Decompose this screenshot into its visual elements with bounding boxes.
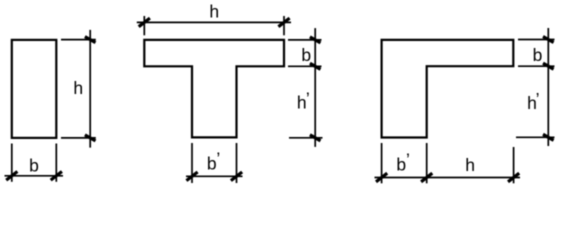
dim b (T right): top extension line [288,39,322,41]
dim b (rect): right tick [51,172,62,181]
dim b (T right): middle tick [310,63,321,69]
dim h (rect): dimension line [89,30,91,148]
dim b (rect): right extension line [55,144,57,182]
dim b (L right): middle tick [543,63,554,69]
dim b (rect): left tick [6,172,17,181]
dim b and h' (T right): dimension line [314,28,316,147]
dim b' and h (L bottom): dimension line [375,177,521,179]
dim h (T top): left extension line [143,16,145,35]
L section outline [382,40,514,138]
svg-text:b: b [29,155,39,175]
dim h (T top): right extension line [283,16,285,35]
dim b' (L bottom): left tick [376,173,387,182]
dim h' (T right): bottom extension line [289,137,323,139]
svg-text:’: ’ [306,88,310,108]
svg-text:h: h [465,155,475,175]
dim b (L right): top extension line [518,39,555,41]
rectangular section outline [12,40,57,138]
dim h (T top): left tick [139,18,150,27]
svg-text:’: ’ [216,149,220,169]
dim b' (T bottom): right tick [231,172,242,181]
dim h' (L right): bottom tick [543,134,554,140]
dim b (T right): top tick [310,37,321,43]
dim h (rect): top tick [85,37,96,43]
dim h (L bottom): right extension line [513,147,515,183]
dim h (T top): dimension line [137,21,291,23]
svg-text:’: ’ [536,89,540,109]
svg-text:b: b [301,45,311,65]
svg-text:b: b [207,153,217,173]
dim h (L bottom): right tick [508,173,519,182]
dim b (rect): dimension line [5,175,64,177]
dim b (rect): left extension line [11,144,13,182]
dim b' and h (L bottom): middle extension line [426,143,428,183]
dim b' (T bottom): right extension line [236,143,238,183]
dim b' (T bottom): dimension line [186,175,243,177]
dim b' (L bottom): left extension line [381,143,383,183]
dim h (rect): top extension line [61,39,96,41]
dim h (rect): bottom tick [85,135,96,141]
dim b (T right): middle extension line [288,65,322,67]
dim b (L right): middle extension line [518,65,555,67]
T section outline [144,40,284,137]
svg-text:b: b [396,154,406,174]
svg-text:h: h [73,78,83,98]
svg-text:’: ’ [406,149,410,169]
dim h (rect): bottom extension line [61,137,96,139]
dim h' (L right): bottom extension line [516,136,555,138]
dim b' (T bottom): left tick [186,172,197,181]
dim h (T top): right tick [278,18,289,27]
dim b (L right): top tick [543,37,554,43]
dim h' (T right): bottom tick [310,135,321,141]
dim b and h' (L right): dimension line [547,28,549,146]
svg-text:h: h [209,2,219,22]
svg-text:b: b [533,45,543,65]
dim b' (T bottom): left extension line [191,143,193,183]
dim b' and h (L bottom): middle tick [421,173,432,182]
